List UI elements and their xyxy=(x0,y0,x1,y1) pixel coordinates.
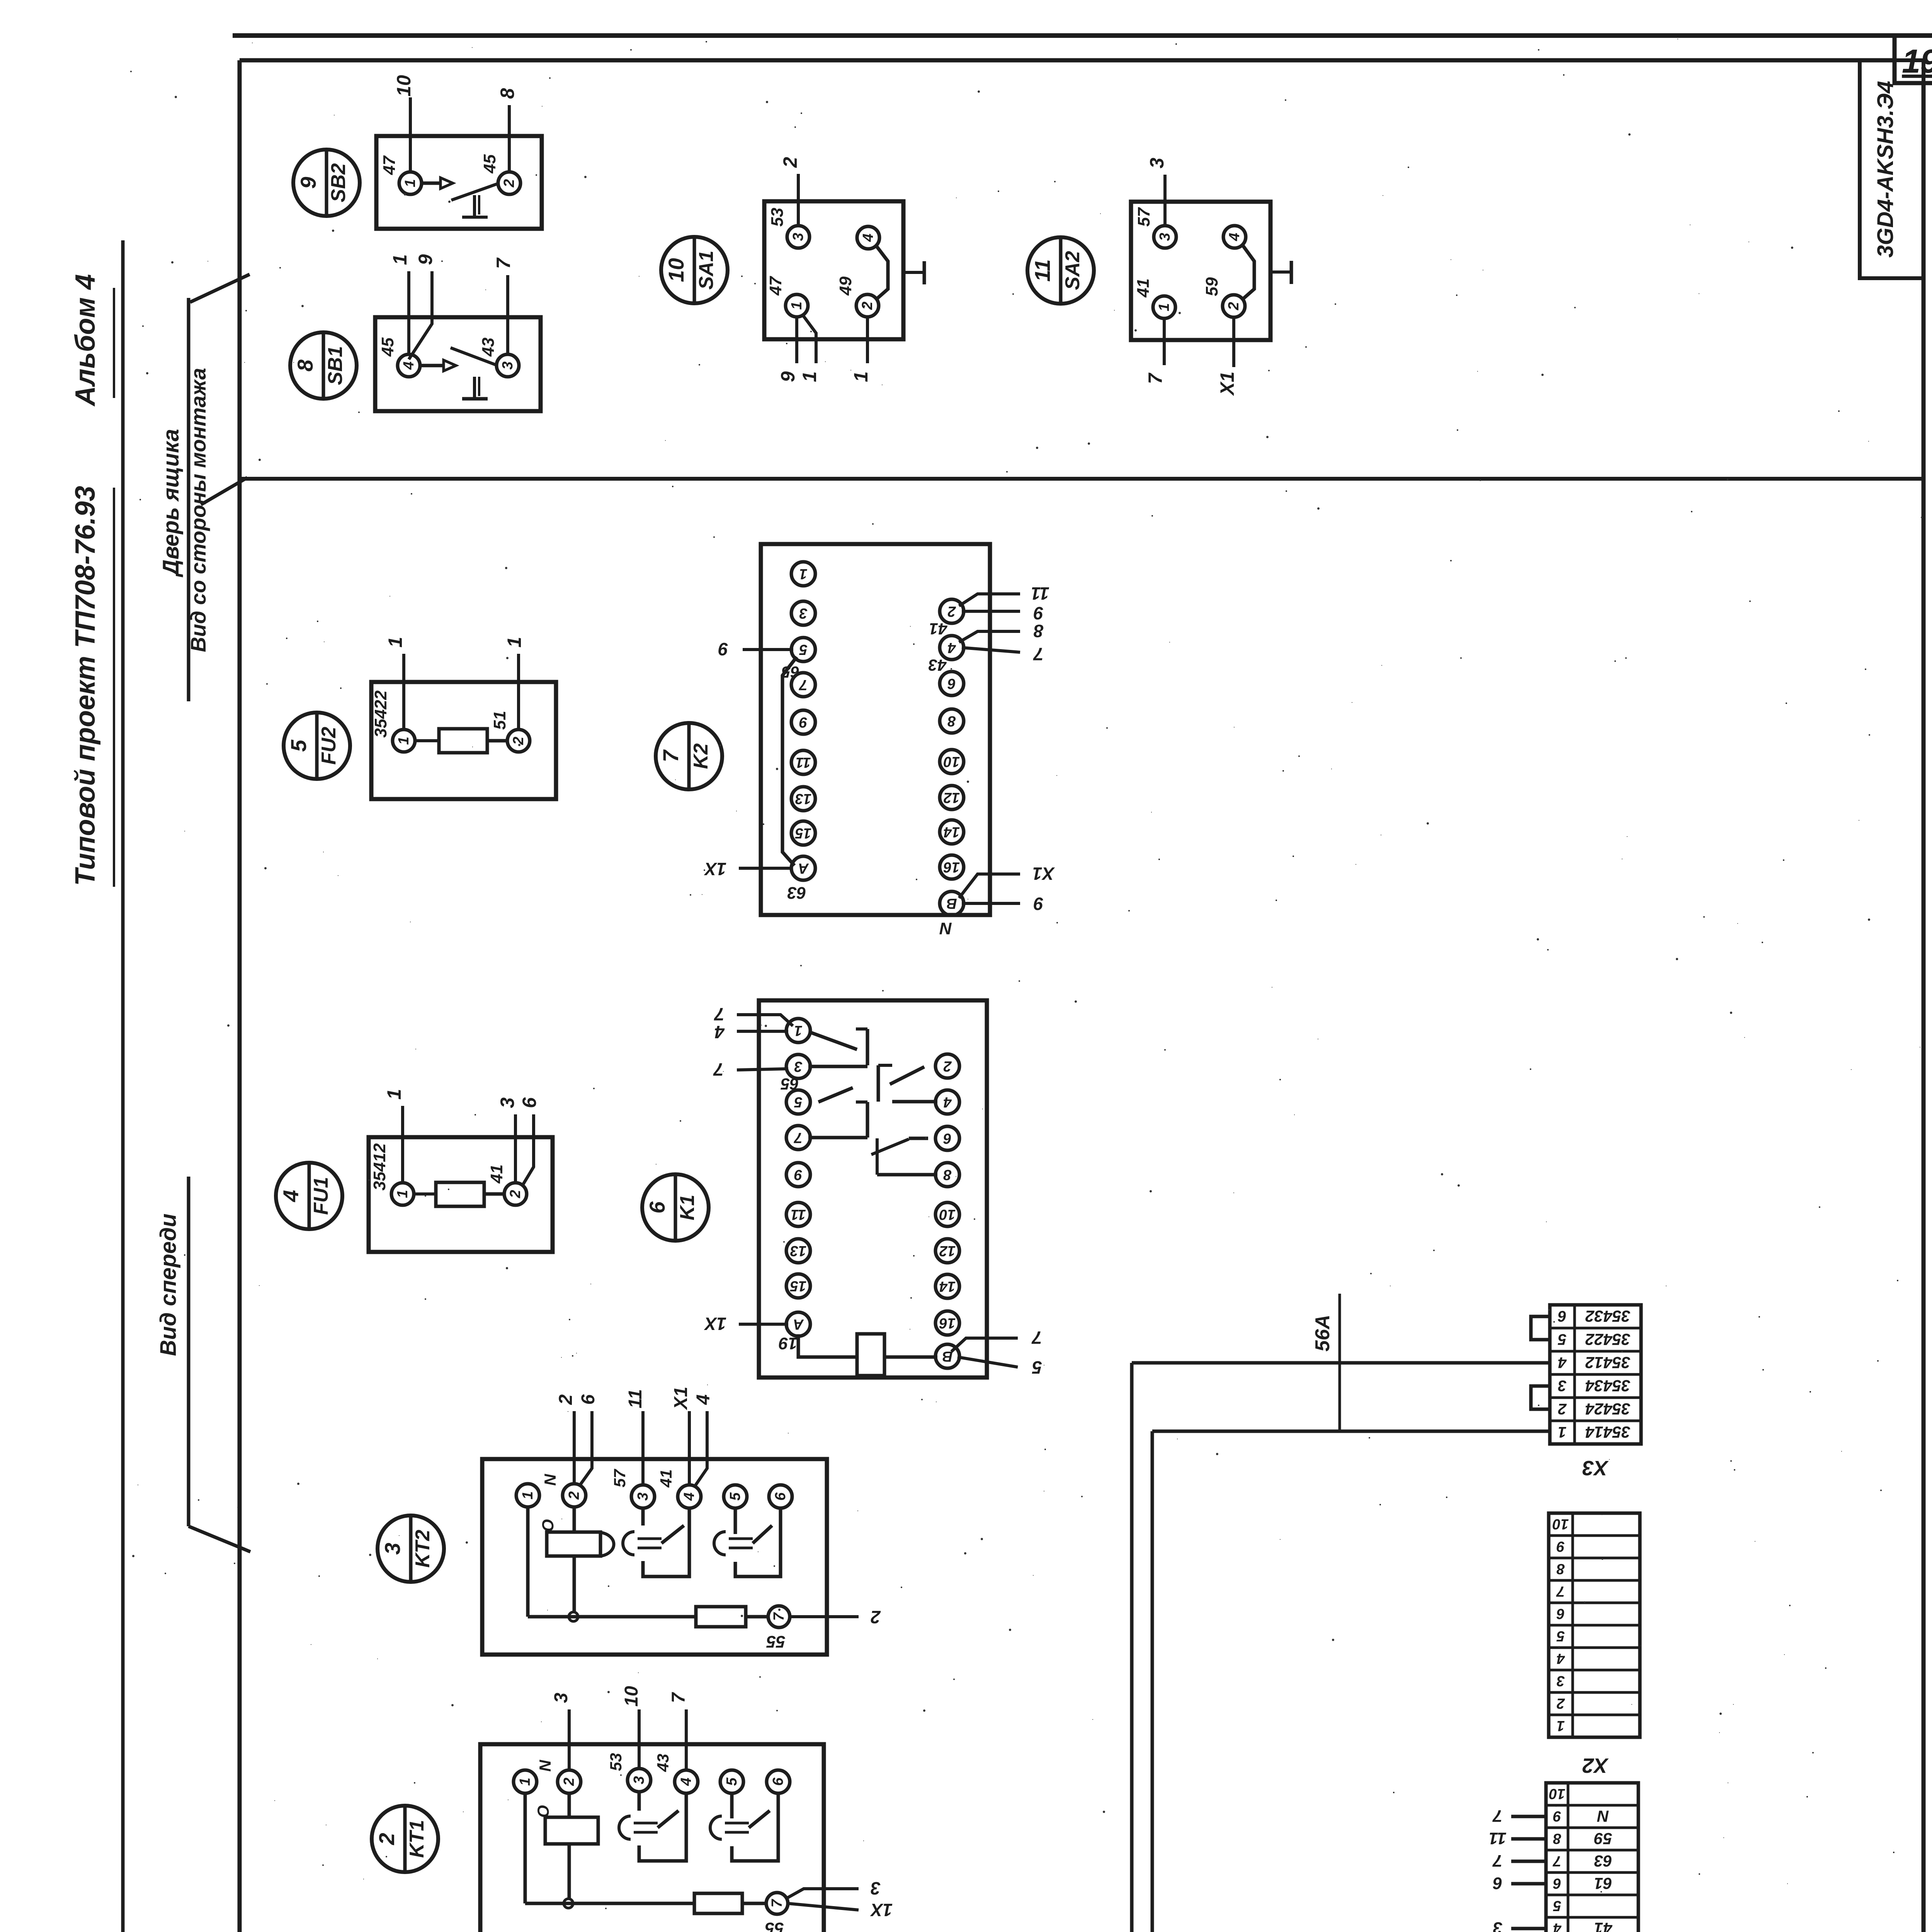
svg-text:35422: 35422 xyxy=(371,690,390,738)
svg-text:6: 6 xyxy=(947,675,956,692)
svg-text:6: 6 xyxy=(1556,1605,1565,1622)
svg-text:2: 2 xyxy=(1226,302,1242,310)
svg-text:1: 1 xyxy=(384,637,406,648)
svg-text:3: 3 xyxy=(1146,158,1168,168)
svg-text:5: 5 xyxy=(794,1094,803,1110)
svg-text:35434: 35434 xyxy=(1585,1377,1631,1395)
svg-text:3: 3 xyxy=(871,1878,881,1898)
svg-text:3: 3 xyxy=(380,1543,405,1554)
svg-text:3: 3 xyxy=(799,605,807,621)
svg-text:Вид со стороны монтажа: Вид со стороны монтажа xyxy=(186,368,210,652)
svg-text:47: 47 xyxy=(380,155,399,175)
svg-text:5: 5 xyxy=(1556,1628,1565,1644)
svg-text:9: 9 xyxy=(296,177,320,189)
svg-text:4: 4 xyxy=(714,1022,725,1042)
svg-text:53: 53 xyxy=(607,1753,625,1771)
svg-text:16: 16 xyxy=(943,859,960,875)
svg-text:N: N xyxy=(536,1759,554,1772)
svg-text:35422: 35422 xyxy=(1585,1330,1631,1349)
svg-text:7: 7 xyxy=(1033,644,1044,664)
svg-text:3: 3 xyxy=(790,233,806,241)
svg-text:2: 2 xyxy=(871,1607,881,1627)
svg-text:1: 1 xyxy=(503,637,525,648)
svg-text:9: 9 xyxy=(1034,894,1044,914)
svg-text:3: 3 xyxy=(1157,233,1173,241)
svg-text:63: 63 xyxy=(1594,1852,1612,1870)
svg-text:1: 1 xyxy=(396,736,412,745)
svg-text:5: 5 xyxy=(724,1777,740,1786)
svg-text:2: 2 xyxy=(859,301,876,310)
svg-text:SB1: SB1 xyxy=(324,346,347,385)
svg-text:A: A xyxy=(793,1316,804,1332)
svg-text:7: 7 xyxy=(769,1899,785,1908)
svg-text:9: 9 xyxy=(718,639,728,659)
svg-text:35414: 35414 xyxy=(1585,1423,1631,1441)
svg-text:13: 13 xyxy=(795,791,811,807)
svg-text:2: 2 xyxy=(507,1190,524,1198)
svg-text:14: 14 xyxy=(944,824,960,840)
svg-text:5: 5 xyxy=(1558,1331,1566,1348)
svg-text:SA2: SA2 xyxy=(1061,251,1084,290)
svg-text:K1: K1 xyxy=(676,1195,699,1220)
svg-text:41: 41 xyxy=(929,620,948,638)
svg-text:4: 4 xyxy=(860,233,876,242)
svg-text:4: 4 xyxy=(678,1777,694,1786)
svg-text:2: 2 xyxy=(566,1491,582,1500)
svg-text:7: 7 xyxy=(493,257,514,269)
svg-text:43: 43 xyxy=(929,656,947,674)
svg-text:9: 9 xyxy=(799,714,807,730)
svg-text:43: 43 xyxy=(654,1754,672,1772)
svg-text:41: 41 xyxy=(657,1469,675,1488)
svg-text:5: 5 xyxy=(799,641,808,658)
svg-text:19: 19 xyxy=(1902,43,1932,80)
svg-text:7: 7 xyxy=(668,1692,689,1703)
svg-text:KT2: KT2 xyxy=(412,1530,434,1568)
svg-text:2: 2 xyxy=(374,1833,399,1845)
svg-text:10: 10 xyxy=(1553,1516,1569,1532)
svg-text:55: 55 xyxy=(766,1632,785,1651)
svg-text:49: 49 xyxy=(836,276,855,296)
svg-text:5: 5 xyxy=(1032,1357,1042,1378)
svg-text:65: 65 xyxy=(781,1075,799,1093)
svg-text:Типовой проект ТП708-76.93: Типовой проект ТП708-76.93 xyxy=(70,486,101,886)
svg-text:9: 9 xyxy=(1034,603,1044,623)
svg-text:9: 9 xyxy=(777,371,799,382)
svg-text:KT1: KT1 xyxy=(406,1820,428,1858)
svg-text:35412: 35412 xyxy=(1585,1354,1631,1372)
svg-text:4: 4 xyxy=(681,1492,697,1501)
svg-text:3: 3 xyxy=(794,1058,802,1075)
svg-text:1: 1 xyxy=(1556,1718,1565,1734)
svg-text:4: 4 xyxy=(693,1395,714,1405)
svg-text:6: 6 xyxy=(645,1201,669,1214)
svg-text:X3: X3 xyxy=(1582,1456,1609,1480)
svg-text:12: 12 xyxy=(939,1243,956,1259)
svg-text:X1: X1 xyxy=(671,1387,691,1411)
svg-text:A: A xyxy=(798,860,809,876)
svg-text:4: 4 xyxy=(947,639,956,656)
svg-text:9: 9 xyxy=(1553,1808,1561,1824)
svg-text:Альбом 4: Альбом 4 xyxy=(70,274,101,406)
svg-text:N: N xyxy=(541,1473,559,1486)
svg-text:2: 2 xyxy=(943,1058,952,1074)
svg-text:12: 12 xyxy=(944,789,960,806)
svg-text:15: 15 xyxy=(795,825,811,841)
svg-text:Вид спереди: Вид спереди xyxy=(156,1214,181,1356)
svg-text:7: 7 xyxy=(1492,1806,1502,1825)
svg-text:FU2: FU2 xyxy=(318,727,340,765)
svg-text:11: 11 xyxy=(1030,259,1054,282)
svg-text:N: N xyxy=(1597,1807,1609,1825)
svg-text:1X: 1X xyxy=(870,1900,893,1920)
svg-text:K2: K2 xyxy=(690,743,712,769)
svg-text:10: 10 xyxy=(939,1206,956,1223)
svg-text:4: 4 xyxy=(279,1190,303,1202)
svg-text:43: 43 xyxy=(479,338,498,357)
svg-text:2: 2 xyxy=(779,157,801,168)
svg-text:10: 10 xyxy=(621,1686,642,1707)
svg-text:3: 3 xyxy=(1493,1918,1502,1932)
svg-text:16: 16 xyxy=(939,1315,956,1331)
svg-text:56A: 56A xyxy=(1311,1315,1334,1351)
svg-text:1: 1 xyxy=(520,1491,536,1499)
svg-text:1: 1 xyxy=(794,1022,802,1039)
svg-text:2: 2 xyxy=(1556,1695,1565,1711)
svg-text:55: 55 xyxy=(765,1919,784,1932)
svg-text:41: 41 xyxy=(1134,279,1153,298)
svg-text:7: 7 xyxy=(714,1004,724,1024)
svg-text:В: В xyxy=(942,1348,952,1364)
svg-text:9: 9 xyxy=(1556,1538,1565,1554)
svg-text:57: 57 xyxy=(1134,207,1153,226)
svg-text:14: 14 xyxy=(939,1278,956,1294)
svg-text:7: 7 xyxy=(1492,1851,1502,1870)
svg-text:9: 9 xyxy=(415,254,436,265)
svg-text:4: 4 xyxy=(1226,233,1243,241)
svg-text:7: 7 xyxy=(794,1129,803,1146)
svg-text:19: 19 xyxy=(779,1334,798,1353)
svg-text:1: 1 xyxy=(383,1089,405,1100)
svg-text:1: 1 xyxy=(1156,303,1172,311)
svg-text:X1: X1 xyxy=(1032,864,1055,884)
svg-text:1: 1 xyxy=(799,566,807,582)
svg-text:11: 11 xyxy=(1031,583,1049,604)
svg-text:6: 6 xyxy=(772,1492,789,1501)
svg-text:О: О xyxy=(534,1805,552,1818)
svg-text:В: В xyxy=(946,895,957,912)
svg-text:4: 4 xyxy=(401,361,417,370)
svg-text:11: 11 xyxy=(625,1389,646,1408)
svg-text:Дверь ящика: Дверь ящика xyxy=(158,429,184,578)
svg-text:8: 8 xyxy=(943,1167,952,1183)
svg-text:10: 10 xyxy=(1549,1786,1565,1802)
svg-text:3: 3 xyxy=(1558,1377,1566,1394)
svg-text:45: 45 xyxy=(480,154,499,173)
svg-text:X1: X1 xyxy=(1216,371,1238,396)
svg-text:X2: X2 xyxy=(1582,1754,1609,1777)
svg-text:О: О xyxy=(539,1519,557,1532)
svg-text:10: 10 xyxy=(664,258,688,282)
svg-text:6: 6 xyxy=(1558,1308,1566,1325)
svg-text:SB2: SB2 xyxy=(327,163,350,202)
svg-text:4: 4 xyxy=(1558,1354,1567,1371)
svg-text:15: 15 xyxy=(790,1278,806,1294)
svg-text:8: 8 xyxy=(1034,621,1044,641)
svg-text:8: 8 xyxy=(1556,1561,1565,1577)
svg-text:SA1: SA1 xyxy=(695,250,718,289)
svg-text:6: 6 xyxy=(1493,1874,1502,1893)
svg-text:1: 1 xyxy=(1558,1423,1566,1440)
svg-text:5: 5 xyxy=(286,740,311,752)
svg-text:8: 8 xyxy=(1553,1830,1561,1847)
svg-text:FU1: FU1 xyxy=(310,1177,332,1215)
svg-text:35432: 35432 xyxy=(1585,1307,1631,1325)
svg-text:11: 11 xyxy=(796,754,811,770)
svg-text:2: 2 xyxy=(556,1394,576,1405)
svg-text:13: 13 xyxy=(790,1243,806,1259)
svg-text:3: 3 xyxy=(631,1776,647,1784)
svg-text:1: 1 xyxy=(789,301,805,310)
svg-text:45: 45 xyxy=(378,337,397,357)
svg-text:1: 1 xyxy=(517,1777,533,1786)
svg-text:2: 2 xyxy=(501,179,517,187)
svg-text:61: 61 xyxy=(1594,1874,1612,1893)
svg-text:1: 1 xyxy=(389,254,411,265)
svg-text:41: 41 xyxy=(487,1165,506,1184)
svg-text:7: 7 xyxy=(713,1060,724,1080)
svg-text:65: 65 xyxy=(781,663,799,681)
svg-text:7: 7 xyxy=(771,1612,787,1621)
svg-text:57: 57 xyxy=(611,1469,629,1487)
svg-text:35424: 35424 xyxy=(1585,1400,1631,1418)
svg-text:6: 6 xyxy=(1553,1875,1561,1891)
svg-text:1X: 1X xyxy=(704,1314,727,1334)
svg-text:1: 1 xyxy=(395,1190,411,1198)
svg-text:11: 11 xyxy=(1489,1829,1507,1848)
svg-text:7: 7 xyxy=(1556,1583,1565,1599)
svg-text:3: 3 xyxy=(551,1692,571,1703)
svg-text:10: 10 xyxy=(944,753,960,770)
svg-text:6: 6 xyxy=(578,1394,599,1405)
svg-text:N: N xyxy=(939,919,952,938)
svg-text:7: 7 xyxy=(658,749,683,762)
svg-text:6: 6 xyxy=(519,1097,540,1108)
svg-text:3: 3 xyxy=(500,361,516,369)
svg-text:63: 63 xyxy=(787,883,806,902)
svg-text:5: 5 xyxy=(727,1492,743,1501)
svg-text:7: 7 xyxy=(1553,1853,1561,1869)
svg-text:4: 4 xyxy=(1553,1920,1561,1932)
svg-text:7: 7 xyxy=(1031,1328,1042,1348)
svg-text:41: 41 xyxy=(1594,1919,1613,1932)
svg-text:3: 3 xyxy=(1556,1673,1565,1689)
svg-text:3GD4-AKSH3.Э4: 3GD4-AKSH3.Э4 xyxy=(1873,81,1898,258)
svg-text:2: 2 xyxy=(947,603,956,619)
svg-text:8: 8 xyxy=(293,359,317,372)
svg-text:8: 8 xyxy=(497,88,518,99)
svg-text:59: 59 xyxy=(1594,1830,1612,1848)
svg-text:2: 2 xyxy=(1558,1400,1567,1417)
svg-text:3: 3 xyxy=(635,1492,651,1500)
svg-text:3: 3 xyxy=(497,1097,518,1108)
svg-text:2: 2 xyxy=(510,736,527,745)
svg-text:8: 8 xyxy=(947,713,956,729)
svg-text:2: 2 xyxy=(561,1777,577,1786)
svg-text:10: 10 xyxy=(393,75,415,97)
svg-text:11: 11 xyxy=(791,1206,806,1223)
svg-text:6: 6 xyxy=(770,1777,786,1786)
svg-text:53: 53 xyxy=(768,208,787,227)
svg-text:59: 59 xyxy=(1202,277,1221,296)
svg-text:7: 7 xyxy=(1145,372,1166,384)
svg-text:4: 4 xyxy=(943,1094,952,1110)
svg-text:51: 51 xyxy=(490,711,509,730)
svg-text:5: 5 xyxy=(1553,1898,1561,1914)
svg-text:1: 1 xyxy=(799,371,820,382)
svg-text:1: 1 xyxy=(850,371,872,382)
svg-text:9: 9 xyxy=(794,1167,802,1183)
svg-text:4: 4 xyxy=(1556,1650,1565,1667)
svg-text:47: 47 xyxy=(766,276,785,296)
svg-text:6: 6 xyxy=(943,1130,952,1146)
svg-text:35412: 35412 xyxy=(370,1143,389,1190)
svg-text:1: 1 xyxy=(402,179,418,187)
svg-text:1X: 1X xyxy=(704,859,727,879)
